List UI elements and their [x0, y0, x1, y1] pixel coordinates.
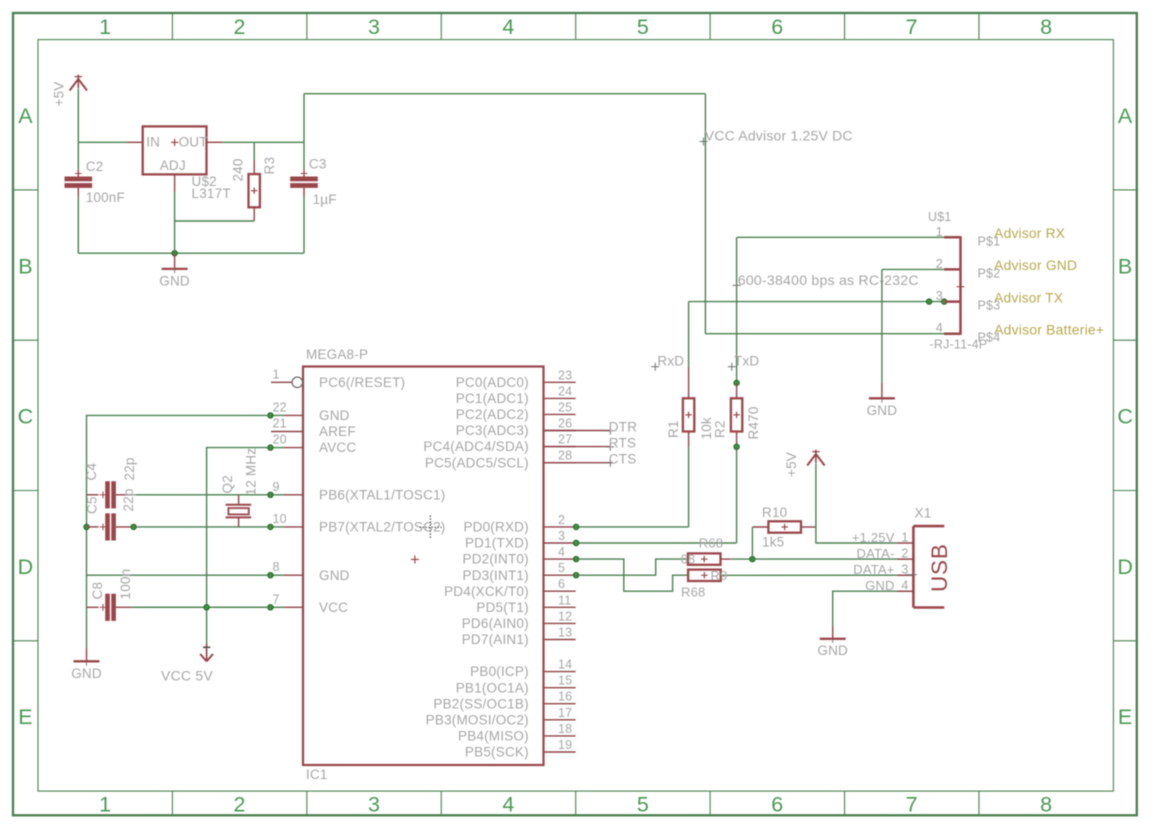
svg-text:PB6(XTAL1/TOSC1): PB6(XTAL1/TOSC1) — [319, 487, 446, 502]
svg-text:PC3(ADC3): PC3(ADC3) — [456, 423, 529, 438]
svg-text:PD5(T1): PD5(T1) — [476, 600, 528, 615]
wire GND rail — [87, 415, 272, 648]
svg-text:DATA-: DATA- — [857, 546, 895, 561]
svg-text:16: 16 — [558, 690, 572, 704]
svg-text:L317T: L317T — [192, 186, 231, 201]
svg-text:GND: GND — [159, 274, 190, 289]
svg-text:PB1(OC1A): PB1(OC1A) — [456, 680, 529, 695]
svg-text:5: 5 — [637, 15, 649, 39]
svg-text:VCC Advisor 1.25V DC: VCC Advisor 1.25V DC — [705, 128, 853, 143]
svg-text:27: 27 — [558, 433, 572, 447]
svg-text:A: A — [18, 104, 33, 128]
svg-text:R9: R9 — [711, 568, 728, 583]
resistor R69 (DATA+ series) — [681, 568, 897, 600]
svg-text:GND: GND — [319, 408, 350, 423]
svg-text:R10: R10 — [762, 505, 787, 520]
svg-text:C8: C8 — [90, 582, 105, 600]
svg-text:8: 8 — [1040, 15, 1052, 39]
net label 600-38400 bps as RC-232C — [733, 273, 919, 289]
wire R2 to PD1 — [576, 447, 737, 543]
svg-text:3: 3 — [936, 288, 943, 303]
svg-text:13: 13 — [558, 626, 572, 640]
svg-text:2: 2 — [234, 15, 246, 39]
svg-text:USB: USB — [927, 543, 952, 592]
svg-text:B: B — [18, 254, 33, 278]
svg-text:9: 9 — [273, 480, 280, 494]
svg-text:2: 2 — [558, 513, 565, 527]
IC1 pin connection dots right — [573, 524, 579, 578]
capacitor C8 100n — [87, 569, 272, 621]
svg-text:1: 1 — [99, 793, 111, 817]
svg-text:5: 5 — [558, 561, 565, 575]
svg-text:C: C — [18, 405, 34, 429]
svg-text:E: E — [18, 705, 33, 729]
svg-text:1: 1 — [99, 15, 111, 39]
wire +5V to USB pin1 — [816, 464, 897, 543]
svg-text:GND: GND — [71, 666, 102, 681]
net label VCC Advisor 1.25V DC — [700, 94, 853, 334]
resistor R3 240 — [231, 142, 278, 221]
svg-text:21: 21 — [273, 417, 287, 431]
svg-text:11: 11 — [558, 593, 571, 607]
IC1 origin cross — [411, 555, 419, 563]
svg-text:PD4(XCK/T0): PD4(XCK/T0) — [444, 584, 529, 599]
svg-text:IN: IN — [146, 135, 160, 150]
svg-text:68: 68 — [681, 552, 696, 567]
svg-text:4: 4 — [502, 15, 514, 39]
ground GND (regulator) — [159, 250, 190, 288]
svg-text:DTR: DTR — [609, 420, 637, 435]
svg-text:240: 240 — [231, 158, 246, 181]
svg-text:3: 3 — [368, 15, 380, 39]
svg-text:PB4(MISO): PB4(MISO) — [458, 729, 529, 744]
svg-text:GND: GND — [817, 643, 848, 658]
svg-text:8: 8 — [1040, 793, 1052, 817]
svg-text:22p: 22p — [121, 488, 136, 511]
svg-text:AVCC: AVCC — [319, 440, 356, 455]
net label RxD — [651, 353, 684, 370]
+5V supply symbol (USB) — [784, 450, 825, 477]
resistor R2 470 — [713, 380, 762, 449]
svg-text:1µF: 1µF — [313, 192, 337, 207]
svg-text:PD7(AIN1): PD7(AIN1) — [462, 632, 529, 647]
svg-text:3: 3 — [368, 793, 380, 817]
+5V supply symbol (input) — [52, 75, 88, 107]
svg-text:100n: 100n — [118, 569, 133, 600]
svg-text:E: E — [1118, 705, 1133, 729]
svg-text:DATA+: DATA+ — [853, 562, 894, 577]
svg-text:PD6(AIN0): PD6(AIN0) — [462, 616, 529, 631]
svg-text:5: 5 — [637, 793, 649, 817]
svg-text:X1: X1 — [915, 506, 932, 521]
wire IN row — [78, 141, 141, 143]
wire R1 to PD0 — [576, 447, 689, 527]
svg-text:R2: R2 — [713, 420, 728, 438]
net labels Advisor RX GND TX Batterie+ — [994, 226, 1104, 337]
resistor R1 10k — [666, 368, 714, 448]
svg-text:PD2(INT0): PD2(INT0) — [462, 552, 528, 567]
svg-text:100nF: 100nF — [86, 190, 125, 205]
wire Advisor GND row — [882, 269, 944, 382]
svg-text:3: 3 — [558, 529, 565, 543]
svg-text:Advisor RX: Advisor RX — [994, 226, 1065, 241]
svg-text:1k5: 1k5 — [762, 535, 784, 550]
wire DATA- to USB — [750, 556, 897, 562]
svg-text:14: 14 — [558, 658, 572, 672]
svg-text:600-38400 bps as RC-232C: 600-38400 bps as RC-232C — [738, 273, 919, 288]
svg-text:VCC 5V: VCC 5V — [161, 669, 213, 684]
voltage regulator U$2 L317T — [143, 126, 231, 201]
net labels DTR RTS CTS — [544, 420, 638, 467]
svg-text:B: B — [1118, 254, 1133, 278]
svg-text:C4: C4 — [84, 463, 99, 481]
wire 1.25V output top run — [304, 94, 705, 143]
svg-text:IC1: IC1 — [306, 767, 328, 782]
wire PD3 jog — [576, 559, 688, 575]
svg-text:C: C — [1117, 405, 1133, 429]
svg-text:17: 17 — [558, 706, 572, 720]
wire AVCC — [207, 448, 271, 644]
IC1 pin connection dots left — [268, 413, 274, 610]
svg-text:GND: GND — [867, 403, 898, 418]
svg-text:A: A — [1118, 104, 1133, 128]
svg-text:26: 26 — [558, 417, 572, 431]
svg-text:R68: R68 — [681, 585, 705, 600]
svg-text:PB3(MOSI/OC2): PB3(MOSI/OC2) — [426, 712, 529, 727]
svg-text:PB2(SS/OC1B): PB2(SS/OC1B) — [433, 696, 528, 711]
svg-text:PD0(RXD): PD0(RXD) — [463, 520, 528, 535]
svg-text:PD1(TXD): PD1(TXD) — [465, 536, 529, 551]
wire Advisor TX to R1 — [689, 299, 947, 368]
wire USB GND — [833, 591, 897, 626]
svg-text:C3: C3 — [309, 157, 327, 172]
svg-text:C2: C2 — [86, 159, 104, 174]
svg-text:7: 7 — [273, 592, 280, 606]
svg-text:4: 4 — [901, 579, 908, 593]
wire PD2 jog — [576, 559, 688, 591]
svg-text:PC1(ADC1): PC1(ADC1) — [456, 391, 529, 406]
ground GND (USB) — [817, 626, 848, 658]
svg-text:6: 6 — [558, 577, 565, 591]
svg-text:4: 4 — [502, 793, 514, 817]
svg-text:18: 18 — [558, 722, 572, 736]
svg-text:+5V: +5V — [52, 82, 67, 107]
wire +5V to IN and C2 — [77, 89, 79, 170]
svg-text:R3: R3 — [262, 157, 277, 175]
svg-text:PB5(SCK): PB5(SCK) — [465, 745, 529, 760]
svg-text:MEGA8-P: MEGA8-P — [306, 347, 368, 362]
svg-text:2: 2 — [936, 256, 943, 271]
svg-text:GND: GND — [319, 568, 350, 583]
svg-text:24: 24 — [558, 384, 572, 398]
svg-text:PC0(ADC0): PC0(ADC0) — [456, 375, 529, 390]
svg-text:28: 28 — [558, 449, 572, 463]
svg-text:4: 4 — [936, 320, 943, 335]
svg-text:8: 8 — [273, 560, 280, 574]
wire GND pin8 row — [87, 574, 272, 576]
svg-text:U$1: U$1 — [928, 210, 952, 224]
svg-text:7: 7 — [906, 15, 918, 39]
svg-text:20: 20 — [273, 433, 287, 447]
svg-text:TxD: TxD — [734, 353, 759, 368]
svg-text:10: 10 — [273, 512, 287, 526]
USB connector X1 — [852, 506, 952, 608]
wire Advisor RX to R2 — [737, 237, 944, 383]
svg-text:RTS: RTS — [609, 436, 636, 451]
ground GND (connector) — [867, 382, 898, 418]
wire R3 bottom to ADJ — [175, 220, 255, 222]
svg-text:12: 12 — [558, 609, 572, 623]
mouse crosshair cursor — [420, 516, 442, 539]
ground GND (rail) — [71, 648, 102, 681]
svg-text:RxD: RxD — [657, 353, 684, 368]
capacitor C5 22p — [84, 488, 271, 540]
svg-text:2: 2 — [901, 547, 908, 561]
capacitor C3 1uF — [290, 142, 337, 253]
svg-text:VCC: VCC — [319, 600, 348, 615]
wire C2 to ground rail — [78, 197, 304, 254]
svg-text:Q2: Q2 — [220, 475, 235, 493]
svg-text:Advisor TX: Advisor TX — [994, 290, 1063, 305]
svg-text:15: 15 — [558, 674, 572, 688]
svg-text:AREF: AREF — [319, 424, 356, 439]
wire Advisor Batterie+ row — [705, 333, 944, 335]
svg-text:23: 23 — [558, 368, 572, 382]
svg-text:PB0(ICP): PB0(ICP) — [470, 664, 529, 679]
svg-text:PC5(ADC5/SCL): PC5(ADC5/SCL) — [425, 455, 529, 470]
svg-text:CTS: CTS — [609, 452, 637, 467]
wire OUT row — [207, 141, 305, 143]
svg-text:22: 22 — [273, 400, 287, 414]
svg-text:+1.25V: +1.25V — [852, 530, 895, 545]
net label TxD — [728, 353, 760, 370]
IC1 right pins — [423, 368, 575, 759]
svg-text:19: 19 — [558, 738, 572, 752]
svg-text:4: 4 — [558, 545, 565, 559]
crystal Q2 12 MHz — [220, 448, 259, 527]
svg-text:ADJ: ADJ — [160, 158, 186, 173]
svg-text:2: 2 — [234, 793, 246, 817]
connector U$1 RJ-11-4P — [928, 210, 1000, 352]
svg-text:C5: C5 — [85, 496, 100, 514]
svg-text:12 MHz: 12 MHz — [244, 448, 259, 496]
svg-text:OUT: OUT — [179, 135, 208, 150]
capacitor C4 22p — [84, 457, 271, 508]
svg-text:Advisor GND: Advisor GND — [994, 258, 1077, 273]
svg-text:R470: R470 — [746, 406, 761, 439]
svg-text:22p: 22p — [122, 457, 137, 480]
svg-text:6: 6 — [771, 15, 783, 39]
svg-text:1: 1 — [901, 531, 908, 545]
IC1 left pins — [270, 367, 445, 615]
capacitor C2 — [65, 159, 125, 205]
svg-text:PC6(/RESET): PC6(/RESET) — [319, 375, 405, 390]
svg-text:R68: R68 — [699, 536, 723, 551]
svg-text:6: 6 — [771, 793, 783, 817]
svg-text:GND: GND — [865, 578, 895, 593]
resistor R10 1k5 — [752, 505, 816, 559]
resistor R68 (DATA- series) — [681, 536, 753, 567]
wire ADJ down — [174, 174, 176, 253]
svg-text:D: D — [18, 555, 34, 579]
svg-text:-RJ-11-4P: -RJ-11-4P — [930, 338, 988, 352]
svg-text:D: D — [1117, 555, 1133, 579]
VCC 5V supply symbol — [161, 644, 213, 684]
svg-text:1: 1 — [936, 224, 943, 239]
svg-text:PC4(ADC4/SDA): PC4(ADC4/SDA) — [423, 439, 528, 454]
svg-text:+5V: +5V — [784, 452, 799, 477]
IC1 MEGA8-P body — [303, 347, 544, 782]
svg-text:R1: R1 — [666, 420, 681, 438]
svg-text:Advisor Batterie+: Advisor Batterie+ — [994, 323, 1104, 338]
svg-text:1: 1 — [273, 367, 280, 381]
svg-text:PC2(ADC2): PC2(ADC2) — [456, 407, 529, 422]
svg-text:7: 7 — [906, 793, 918, 817]
svg-text:25: 25 — [558, 400, 572, 414]
svg-text:PD3(INT1): PD3(INT1) — [462, 568, 528, 583]
wire VCC pin7 row — [132, 605, 271, 611]
